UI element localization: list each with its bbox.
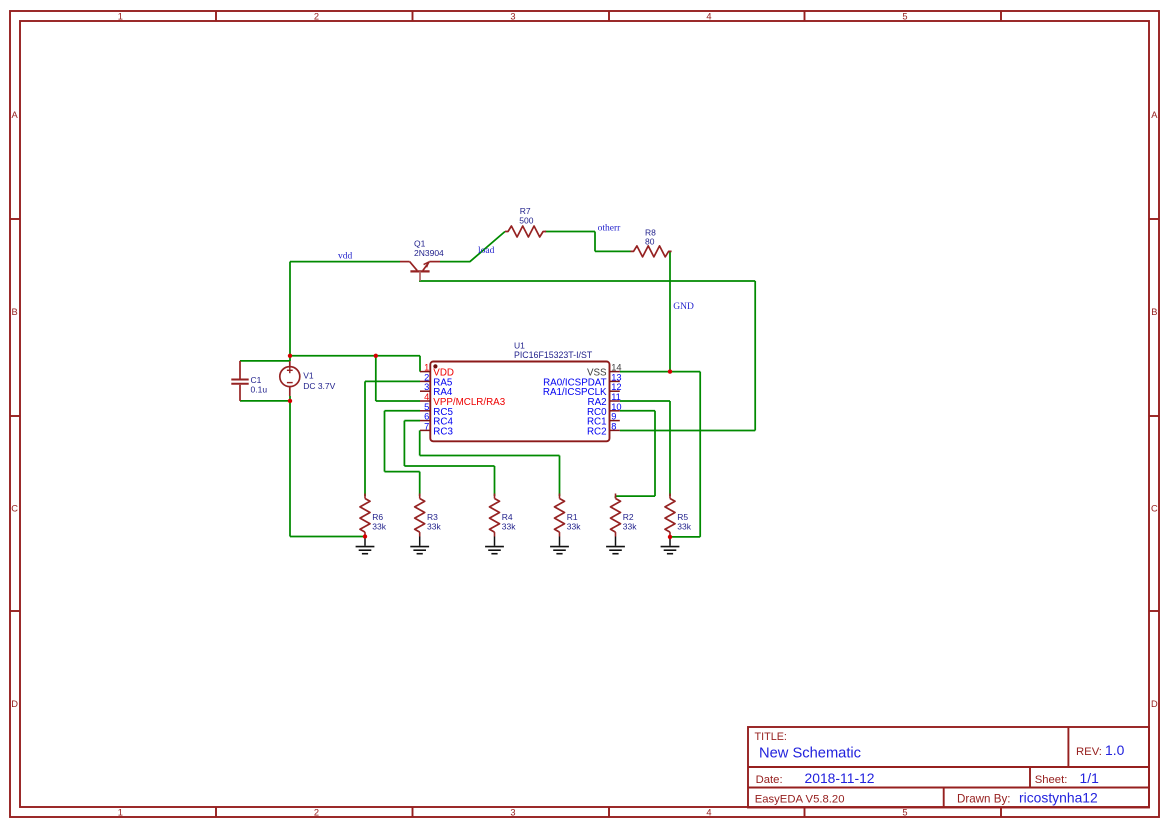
svg-text:Drawn By:: Drawn By: [957, 793, 1010, 806]
svg-text:4: 4 [706, 11, 711, 21]
svg-text:3: 3 [510, 808, 515, 818]
svg-text:TITLE:: TITLE: [755, 731, 787, 743]
svg-text:load: load [478, 246, 495, 256]
svg-text:4: 4 [424, 392, 429, 402]
svg-text:33k: 33k [502, 522, 516, 532]
svg-text:2: 2 [314, 808, 319, 818]
svg-text:33k: 33k [427, 522, 441, 532]
svg-text:9: 9 [611, 412, 616, 422]
svg-text:RC3: RC3 [433, 426, 453, 437]
svg-text:U1: U1 [514, 340, 525, 350]
svg-text:13: 13 [611, 372, 621, 382]
svg-text:11: 11 [611, 392, 621, 402]
svg-text:EasyEDA V5.8.20: EasyEDA V5.8.20 [755, 794, 845, 806]
svg-text:DC 3.7V: DC 3.7V [303, 381, 335, 391]
svg-text:REV:: REV: [1076, 746, 1102, 758]
svg-text:PIC16F15323T-I/ST: PIC16F15323T-I/ST [514, 350, 593, 360]
svg-text:3: 3 [510, 11, 515, 21]
svg-text:0.1u: 0.1u [251, 384, 268, 394]
svg-text:14: 14 [611, 363, 621, 373]
svg-text:3: 3 [424, 382, 429, 392]
svg-text:R2: R2 [623, 512, 634, 522]
svg-text:1: 1 [118, 808, 123, 818]
svg-text:A: A [1151, 110, 1158, 120]
svg-text:A: A [11, 110, 18, 120]
svg-text:7: 7 [424, 421, 429, 431]
svg-text:R1: R1 [567, 512, 578, 522]
svg-text:1: 1 [118, 11, 123, 21]
svg-text:R5: R5 [677, 512, 688, 522]
svg-text:6: 6 [424, 412, 429, 422]
svg-text:C: C [11, 503, 18, 513]
svg-text:B: B [11, 307, 17, 317]
svg-text:Q1: Q1 [414, 239, 426, 249]
svg-text:8: 8 [611, 421, 616, 431]
svg-text:B: B [1151, 307, 1157, 317]
svg-text:1: 1 [424, 363, 429, 373]
svg-text:RC2: RC2 [587, 426, 607, 437]
svg-text:R4: R4 [502, 512, 513, 522]
svg-text:5: 5 [902, 11, 907, 21]
svg-text:80: 80 [645, 237, 655, 247]
svg-text:12: 12 [611, 382, 621, 392]
svg-text:V1: V1 [303, 371, 314, 381]
svg-text:1.0: 1.0 [1105, 742, 1125, 758]
svg-text:4: 4 [706, 808, 711, 818]
svg-text:2: 2 [424, 372, 429, 382]
svg-text:5: 5 [902, 808, 907, 818]
svg-text:10: 10 [611, 402, 621, 412]
svg-text:R3: R3 [427, 512, 438, 522]
svg-text:D: D [11, 699, 18, 709]
svg-text:500: 500 [519, 216, 533, 226]
svg-text:ricostynha12: ricostynha12 [1019, 790, 1098, 806]
svg-text:2: 2 [314, 11, 319, 21]
svg-text:33k: 33k [567, 522, 581, 532]
svg-text:D: D [1151, 699, 1158, 709]
svg-text:5: 5 [424, 402, 429, 412]
svg-text:33k: 33k [372, 522, 386, 532]
svg-text:33k: 33k [623, 522, 637, 532]
svg-text:C: C [1151, 503, 1158, 513]
svg-text:R6: R6 [372, 512, 383, 522]
svg-text:New Schematic: New Schematic [759, 746, 861, 762]
svg-text:GND: GND [673, 302, 694, 312]
svg-text:otherr: otherr [598, 224, 622, 234]
svg-text:Date:: Date: [756, 774, 783, 786]
svg-text:Sheet:: Sheet: [1035, 774, 1068, 786]
svg-text:1/1: 1/1 [1080, 770, 1100, 786]
svg-text:2N3904: 2N3904 [414, 248, 444, 258]
svg-text:vdd: vdd [338, 252, 353, 262]
svg-text:33k: 33k [677, 522, 691, 532]
svg-text:2018-11-12: 2018-11-12 [805, 770, 875, 786]
